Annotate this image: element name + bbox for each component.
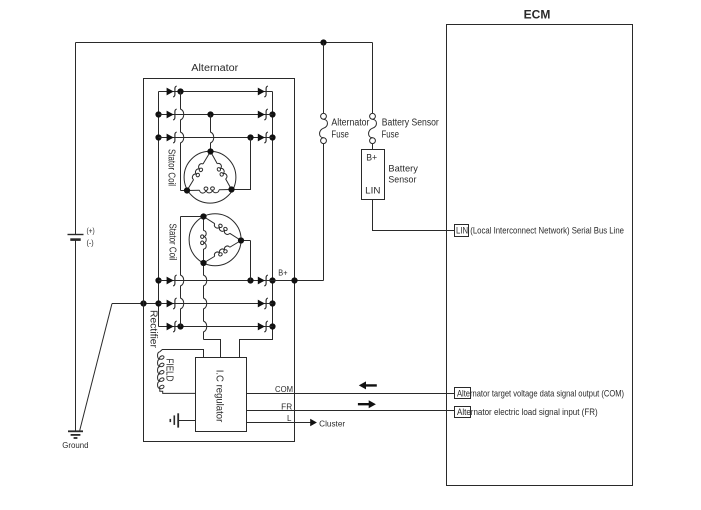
svg-text:Cluster: Cluster	[319, 419, 345, 428]
svg-text:Battery Sensor: Battery Sensor	[382, 118, 440, 129]
svg-text:Ground: Ground	[62, 441, 88, 450]
svg-text:LIN (Local Interconnect Networ: LIN (Local Interconnect Network) Serial …	[456, 226, 624, 237]
svg-text:FR: FR	[281, 402, 292, 411]
svg-text:Fuse: Fuse	[331, 130, 349, 141]
svg-text:Stator Coil: Stator Coil	[166, 149, 177, 186]
svg-text:B+: B+	[366, 152, 377, 162]
svg-text:Stator Coil: Stator Coil	[167, 224, 178, 261]
svg-text:Alternator: Alternator	[331, 118, 370, 129]
svg-text:Alternator target voltage data: Alternator target voltage data signal ou…	[457, 388, 624, 399]
svg-text:ECM: ECM	[524, 8, 551, 22]
svg-text:COM: COM	[275, 385, 293, 394]
svg-text:LIN: LIN	[365, 185, 380, 195]
svg-text:B+: B+	[278, 269, 287, 278]
svg-text:Alternator: Alternator	[191, 63, 239, 74]
svg-text:Fuse: Fuse	[382, 130, 400, 141]
svg-text:I.C regulator: I.C regulator	[214, 370, 225, 423]
svg-text:L: L	[287, 414, 292, 423]
svg-text:Rectifier: Rectifier	[148, 310, 159, 349]
svg-text:Alternator electric load signa: Alternator electric load signal input (F…	[457, 407, 598, 418]
svg-text:Battery: Battery	[388, 163, 418, 174]
svg-text:Sensor: Sensor	[388, 175, 416, 186]
svg-text:FIELD: FIELD	[163, 359, 174, 382]
svg-text:(+): (+)	[87, 226, 95, 236]
svg-text:(-): (-)	[87, 237, 94, 247]
